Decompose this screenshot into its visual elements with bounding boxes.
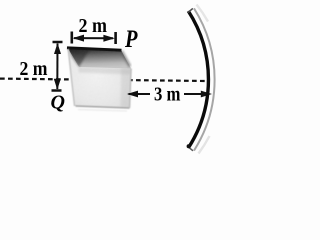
svg-text:P: P	[124, 26, 138, 53]
left dimension shaft	[56, 44, 58, 90]
cube scan grain overlay	[68, 48, 131, 108]
cube bottom shadow	[78, 110, 127, 112]
mirror outer shadow smudge	[197, 5, 209, 22]
3 m left shaft	[129, 93, 151, 95]
top dimension left arrowhead	[73, 35, 85, 42]
3 m left arrowhead	[127, 91, 138, 98]
mirror reflective surface (black arc)	[188, 11, 208, 148]
mirror back surface (gray arc)	[194, 8, 215, 150]
cube front face right shade strip	[121, 68, 132, 108]
left dimension bottom T-bar	[52, 89, 62, 92]
mirror outer shadow smudge bottom	[199, 136, 210, 154]
left dimension up arrowhead	[54, 43, 61, 54]
wire: dashed principal axis	[0, 79, 206, 81]
cube top face (shaded)	[68, 48, 132, 69]
mirror top end cap	[188, 8, 193, 12]
mirror bottom tip blob	[187, 144, 191, 148]
cube top face dark shading overlay	[68, 48, 132, 69]
cube bottom edge	[76, 106, 130, 108]
svg-text:Q: Q	[51, 92, 65, 114]
top dimension left T-bar	[71, 32, 74, 44]
svg-text:2 m: 2 m	[79, 15, 108, 37]
cube soft edges	[68, 49, 131, 111]
cube front face top shadow strip	[78, 67, 131, 75]
cube front face	[68, 48, 131, 108]
3 m right shaft	[184, 93, 209, 95]
left dimension down arrowhead	[54, 79, 61, 90]
top dimension right arrowhead	[103, 35, 115, 42]
cube top-back edge	[67, 48, 122, 50]
left dimension top T-bar	[53, 41, 63, 44]
top dimension shaft	[74, 37, 113, 39]
svg-text:3 m: 3 m	[154, 84, 181, 106]
top dimension right T-bar	[114, 32, 117, 44]
cube top face right diagonal shading	[122, 51, 131, 67]
mirror bottom end cap	[188, 147, 193, 151]
cube top face left dark corner	[68, 48, 91, 68]
cube right edge	[130, 69, 132, 109]
3 m right arrowhead	[201, 91, 212, 98]
svg-text:2 m: 2 m	[20, 58, 48, 80]
cube left edge	[68, 49, 74, 106]
